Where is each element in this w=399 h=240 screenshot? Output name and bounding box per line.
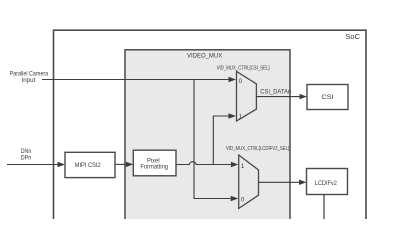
svg-text:DPn: DPn bbox=[21, 155, 32, 162]
svg-text:VID_MUX_CTRL[LCDIFV2_SEL]: VID_MUX_CTRL[LCDIFV2_SEL] bbox=[226, 146, 290, 152]
svg-text:Input: Input bbox=[22, 77, 36, 84]
VIDEO_MUX box bbox=[125, 50, 290, 230]
svg-text:1: 1 bbox=[241, 163, 245, 170]
block Pixel Formatting bbox=[133, 150, 176, 176]
mux U2 bbox=[239, 155, 259, 208]
block LCDIFv2 bbox=[307, 169, 348, 195]
wire: LCDIFv2 down (cropped) bbox=[323, 195, 325, 220]
wire: DNn/DPn to MIPI CSI2 bbox=[7, 164, 58, 166]
wire: mux U1 output to CSI bbox=[256, 96, 299, 98]
SoC box bbox=[54, 30, 367, 230]
svg-text:VID_MUX_CTRL[CSI_SEL]: VID_MUX_CTRL[CSI_SEL] bbox=[217, 66, 270, 72]
wire: parallel camera input to mux U1 input 0 bbox=[42, 79, 229, 81]
wire: branch up from pixel output to mux U1 input 1 bbox=[213, 116, 228, 165]
svg-text:0: 0 bbox=[241, 196, 245, 203]
svg-text:Formatting: Formatting bbox=[140, 163, 168, 170]
svg-text:0: 0 bbox=[239, 78, 243, 85]
wire: Pixel Formatting output with hop over branch, to mux U2 input 1 bbox=[176, 162, 231, 165]
block CSI bbox=[307, 85, 348, 110]
wire: mux U2 output to LCDIFv2 bbox=[259, 181, 300, 183]
svg-text:CSI_DATAn: CSI_DATAn bbox=[260, 89, 291, 95]
wire: branch down from parallel camera line to mux U2 input 0 bbox=[194, 80, 231, 199]
wire: MIPI CSI2 to Pixel Formatting bbox=[115, 163, 126, 165]
svg-text:SoC: SoC bbox=[345, 32, 360, 41]
svg-text:LCDIFv2: LCDIFv2 bbox=[315, 180, 337, 187]
svg-text:CSI: CSI bbox=[321, 94, 334, 101]
block MIPI CSI2 bbox=[65, 152, 115, 177]
svg-text:1: 1 bbox=[239, 114, 243, 121]
mux U1 bbox=[237, 71, 257, 121]
svg-text:VIDEO_MUX: VIDEO_MUX bbox=[187, 52, 223, 59]
svg-text:MIPI CSI2: MIPI CSI2 bbox=[75, 162, 101, 169]
